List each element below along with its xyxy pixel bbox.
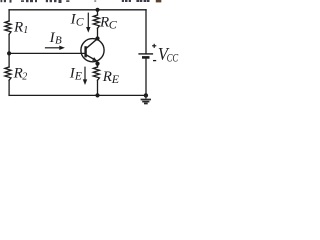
truncated text line (top remnants) — [1, 0, 162, 3]
resistor R1 zigzag — [5, 21, 11, 34]
node: ground junction — [144, 93, 148, 97]
wire: RE to bottom rail — [97, 80, 99, 95]
resistor R2 zigzag — [5, 67, 11, 80]
ground — [141, 95, 151, 103]
svg-text:2: 2 — [22, 71, 27, 82]
transistor Q1 — [81, 39, 104, 64]
svg-text:CC: CC — [167, 51, 179, 65]
svg-text:B: B — [55, 35, 62, 47]
battery minus sign — [153, 60, 156, 62]
wire: Vcc branch upper — [145, 10, 147, 54]
node: collector — [95, 36, 99, 40]
wire: left rail bottom — [8, 80, 10, 95]
node: emitter — [95, 62, 99, 66]
resistor RE zigzag — [93, 67, 99, 80]
svg-text:C: C — [76, 16, 84, 28]
wire: collector column to node — [97, 28, 99, 38]
resistor RC zigzag — [93, 15, 99, 28]
wire: collector column top — [97, 10, 99, 15]
svg-text:1: 1 — [23, 25, 28, 36]
node: RC top on rail — [95, 8, 99, 12]
node: base junction — [7, 51, 11, 55]
wire: emitter node to RE — [97, 64, 99, 67]
svg-text:R: R — [102, 69, 112, 85]
wire: top rail — [9, 9, 146, 11]
node: RE bottom on rail — [95, 93, 99, 97]
svg-text:R: R — [99, 15, 109, 31]
wire: Vcc branch lower — [145, 58, 147, 95]
current arrow IC — [86, 13, 90, 33]
wire: base wire — [9, 52, 85, 54]
svg-text:E: E — [111, 72, 120, 86]
svg-text:E: E — [74, 70, 82, 82]
svg-text:C: C — [109, 17, 118, 31]
current arrow IE — [83, 67, 87, 85]
current arrow IB — [45, 46, 65, 50]
battery VCC — [138, 54, 153, 58]
battery plus sign — [152, 44, 156, 48]
wire: bottom rail — [9, 94, 146, 96]
wire: left rail middle — [8, 34, 10, 67]
wire: left rail — [8, 10, 10, 21]
svg-text:R: R — [13, 20, 23, 36]
